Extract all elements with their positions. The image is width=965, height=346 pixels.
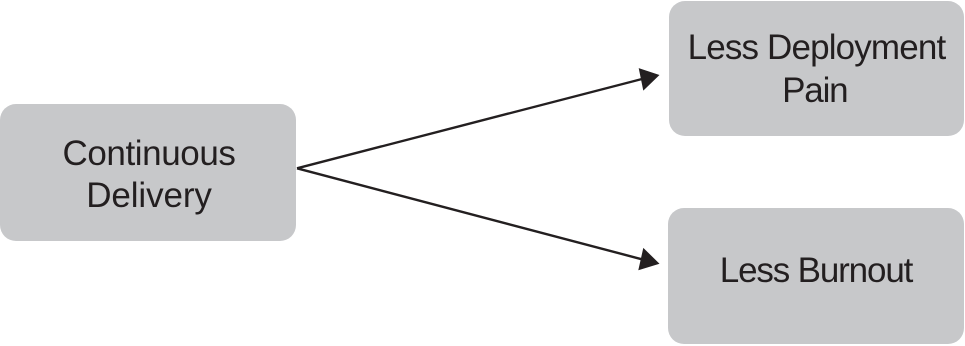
node Less Burnout <box>668 208 964 344</box>
node Continuous Delivery <box>0 104 296 241</box>
node Less Deployment Pain <box>669 1 964 136</box>
wire arrow to Less Deployment Pain <box>297 68 660 168</box>
wire arrow to Less Burnout <box>297 168 660 270</box>
